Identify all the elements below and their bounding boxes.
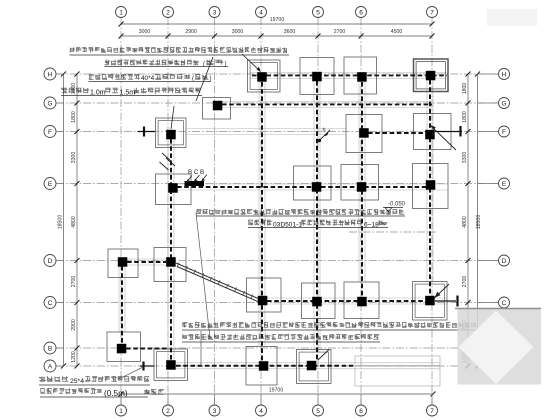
leader arrow to column H4 bbox=[242, 54, 260, 71]
note mid line2 03D501 bbox=[248, 220, 272, 226]
svg-text:G: G bbox=[501, 100, 506, 107]
svg-text:F: F bbox=[502, 129, 506, 136]
conductor axis 4 bbox=[261, 82, 263, 361]
svg-text:4500: 4500 bbox=[391, 29, 403, 35]
column C4 bbox=[258, 296, 268, 306]
column B1 bbox=[117, 344, 127, 354]
column F7 bbox=[425, 130, 435, 140]
column E6 bbox=[357, 182, 367, 192]
svg-text:E: E bbox=[502, 181, 507, 188]
footing C7 bbox=[413, 282, 448, 321]
svg-text:6: 6 bbox=[359, 408, 363, 415]
svg-text:4: 4 bbox=[259, 9, 263, 16]
diagonal tick at column A5 bbox=[318, 350, 329, 361]
column E5 bbox=[312, 182, 322, 192]
footing H7 bbox=[414, 59, 449, 92]
top inner dimension line bbox=[121, 35, 432, 37]
top outer dimension line 19700 bbox=[121, 23, 432, 25]
column E2 bbox=[168, 183, 178, 193]
svg-text:-0.050: -0.050 bbox=[388, 202, 406, 208]
ground terminal right of C7 bbox=[435, 300, 456, 302]
thick welded bar near E2 bbox=[185, 181, 205, 186]
svg-text:H: H bbox=[502, 71, 507, 78]
svg-text:2700: 2700 bbox=[334, 29, 346, 35]
footing C5 bbox=[302, 283, 336, 319]
footing E2 bbox=[156, 174, 192, 205]
footing A2 bbox=[154, 349, 188, 381]
column A2 bbox=[166, 360, 176, 370]
footing C6 bbox=[344, 282, 379, 319]
footing F7 bbox=[414, 114, 452, 150]
svg-text:G: G bbox=[47, 100, 52, 107]
conductor row B stub bbox=[126, 348, 168, 350]
svg-text:D: D bbox=[502, 258, 507, 265]
conductor row G bbox=[222, 104, 432, 106]
column D1 bbox=[118, 257, 128, 267]
footing C4 bbox=[247, 278, 282, 312]
footing B1 bbox=[107, 332, 141, 362]
vertical grid axis lines 1-7 bbox=[120, 18, 122, 406]
svg-text:6: 6 bbox=[359, 9, 363, 16]
svg-text:1800: 1800 bbox=[462, 111, 468, 123]
leader to column F2 bbox=[171, 106, 174, 129]
left inner dimension line bbox=[76, 74, 78, 366]
note bottom-left line2 (0.5m) bbox=[40, 388, 102, 393]
column G3 bbox=[213, 101, 223, 111]
footing E6 bbox=[341, 165, 379, 201]
watermark gray square bbox=[458, 308, 542, 385]
footing E5 bbox=[294, 166, 332, 200]
ground terminal left of A2 bbox=[140, 365, 154, 367]
svg-text:E: E bbox=[48, 181, 53, 188]
conductor axis 5 bbox=[316, 81, 318, 360]
svg-text:19700: 19700 bbox=[269, 388, 284, 394]
svg-text:4800: 4800 bbox=[462, 216, 468, 228]
svg-text:B: B bbox=[48, 345, 52, 352]
column H6 bbox=[357, 72, 367, 82]
top axis circles 1-7 bbox=[116, 7, 127, 18]
conductor row H bbox=[252, 75, 447, 77]
svg-text:4800: 4800 bbox=[71, 216, 77, 228]
down-conductor marker axis5 bbox=[318, 139, 321, 142]
svg-text:3000: 3000 bbox=[232, 29, 244, 35]
svg-text:4: 4 bbox=[259, 408, 263, 415]
arrow at column C7 bbox=[435, 284, 449, 298]
svg-text:18500: 18500 bbox=[58, 215, 64, 230]
svg-text:1: 1 bbox=[119, 408, 123, 415]
svg-text:D: D bbox=[48, 258, 53, 265]
conductor axis 7 bbox=[429, 80, 431, 296]
column A4 bbox=[259, 361, 269, 371]
note mid line1 bbox=[196, 209, 404, 215]
column H5 bbox=[312, 72, 322, 82]
column F2 bbox=[166, 130, 176, 140]
footing A5 bbox=[297, 350, 332, 384]
leader to column G3 bbox=[196, 57, 213, 101]
note 40*4 line bbox=[89, 74, 140, 80]
footing A4 bbox=[246, 347, 277, 386]
svg-text:2900: 2900 bbox=[71, 319, 77, 331]
ground terminal left of F2 bbox=[138, 131, 156, 133]
note bottom-left line1 25*4 bbox=[39, 376, 68, 382]
footing H5 bbox=[300, 58, 334, 95]
bottom axis circles 1-7 bbox=[116, 405, 127, 416]
column F6 bbox=[359, 128, 369, 138]
svg-text:3: 3 bbox=[213, 9, 217, 16]
conductor row D bbox=[127, 261, 166, 263]
diagonal conductor D2 to C4 bbox=[176, 263, 258, 299]
svg-text:3600: 3600 bbox=[284, 29, 296, 35]
bottom dimension line 19700 bbox=[121, 393, 433, 395]
svg-text:B C B: B C B bbox=[188, 169, 204, 176]
svg-text:3: 3 bbox=[213, 408, 217, 415]
svg-text:2700: 2700 bbox=[462, 276, 468, 288]
svg-text:F: F bbox=[48, 129, 52, 136]
hatch marks on axis2 conductor bbox=[162, 153, 171, 161]
footing G3 bbox=[203, 98, 231, 120]
svg-text:(0.5m): (0.5m) bbox=[104, 389, 128, 398]
svg-text:3300: 3300 bbox=[71, 152, 77, 164]
column H4 bbox=[257, 72, 267, 82]
svg-text:3300: 3300 bbox=[462, 152, 468, 164]
conductor row C bbox=[267, 300, 427, 302]
svg-text:19700: 19700 bbox=[270, 17, 285, 23]
column C6 bbox=[357, 297, 367, 307]
column C5 bbox=[312, 297, 322, 307]
leader L from note T4 bbox=[200, 331, 202, 366]
faint ghost top-right bbox=[487, 9, 537, 26]
conductor row A bbox=[176, 365, 355, 367]
footing H4 bbox=[248, 60, 281, 92]
horizontal grid row lines H..A bbox=[56, 73, 498, 75]
svg-text:2: 2 bbox=[166, 9, 170, 16]
conductor row F right bbox=[368, 132, 430, 134]
svg-text:C: C bbox=[48, 300, 53, 307]
faint platform outline bottom right bbox=[355, 356, 440, 386]
column E7 bbox=[426, 180, 436, 190]
note block top-left line2 bbox=[105, 60, 199, 66]
svg-text:2900: 2900 bbox=[185, 29, 197, 35]
right inner dimension line bbox=[467, 74, 469, 366]
svg-text:7: 7 bbox=[430, 408, 434, 415]
svg-text:C: C bbox=[502, 300, 507, 307]
footing F2 bbox=[156, 118, 187, 148]
svg-text:2700: 2700 bbox=[71, 276, 77, 288]
left outer dimension line 18500 bbox=[63, 74, 65, 366]
svg-text:3000: 3000 bbox=[139, 29, 151, 35]
column H7 bbox=[426, 71, 436, 81]
long leader from note to row A bbox=[196, 213, 210, 338]
conductor axis 1 bbox=[121, 266, 123, 343]
right outer dimension line 18500 bbox=[477, 74, 479, 366]
svg-text:5: 5 bbox=[316, 408, 320, 415]
footing D2 bbox=[154, 248, 186, 282]
conductor axis 2 bbox=[170, 139, 172, 360]
note bottom-mid line1 bbox=[182, 322, 476, 328]
column C7 bbox=[425, 296, 435, 306]
column D2 bbox=[166, 257, 176, 267]
svg-text:5: 5 bbox=[316, 9, 320, 16]
watermark white diamond bbox=[459, 311, 534, 385]
svg-text:18500: 18500 bbox=[476, 215, 482, 230]
svg-text:1: 1 bbox=[119, 9, 123, 16]
svg-text:25*4: 25*4 bbox=[70, 378, 84, 385]
svg-text:1200: 1200 bbox=[71, 351, 77, 363]
footing H6 bbox=[344, 57, 377, 94]
column A5 bbox=[307, 361, 317, 371]
conductor axis 6 bbox=[361, 82, 363, 296]
footing E7 bbox=[413, 164, 449, 209]
svg-text:1800: 1800 bbox=[71, 111, 77, 123]
svg-text:7: 7 bbox=[430, 9, 434, 16]
svg-text:A: A bbox=[48, 363, 53, 370]
leader from note T5 to ground terminal bbox=[123, 367, 143, 377]
left axis circles H..A bbox=[44, 68, 56, 80]
svg-text:b: b bbox=[323, 128, 326, 134]
foundation beam lines bbox=[250, 72, 447, 74]
note block top-left line1 bbox=[70, 47, 288, 53]
svg-text:2: 2 bbox=[166, 408, 170, 415]
ground terminal right of F7 bbox=[435, 131, 462, 133]
footing F6 bbox=[346, 115, 382, 153]
svg-text:1800: 1800 bbox=[462, 83, 468, 95]
BCB arrows bbox=[187, 176, 193, 183]
svg-text:40*4: 40*4 bbox=[141, 75, 155, 82]
note 1.0m 1.5m line bbox=[61, 88, 89, 94]
note bottom-mid line2 bbox=[182, 334, 379, 340]
footing D1 bbox=[108, 249, 138, 278]
arrow at column F7 bbox=[429, 124, 456, 150]
extra beam grid line between D and C right side bbox=[349, 231, 436, 233]
conductor row E bbox=[177, 186, 427, 188]
svg-text:H: H bbox=[48, 71, 53, 78]
right axis circles H..C bbox=[499, 69, 510, 80]
